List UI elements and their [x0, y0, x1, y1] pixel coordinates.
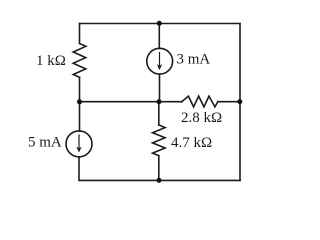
svg-text:1 kΩ: 1 kΩ: [36, 53, 66, 69]
wire center top (top node to 3 mA source): [158, 24, 160, 49]
wire left middle (R1 to 5 mA source): [79, 77, 81, 131]
node dot left middle: [77, 99, 82, 104]
node dot right middle: [237, 99, 242, 104]
node dot center middle: [157, 99, 162, 104]
resistor R3 4.7 kOhm: [153, 125, 166, 156]
svg-text:4.7 kΩ: 4.7 kΩ: [171, 135, 212, 151]
node dot bottom center: [157, 178, 162, 183]
wire left top (top wire to resistor R1): [79, 24, 81, 44]
current source I2 3 mA: [147, 48, 173, 74]
resistor R1 1 kOhm: [73, 44, 86, 78]
wire center mid (middle wire to R3): [158, 102, 160, 125]
node dot top center: [157, 21, 162, 26]
resistor R2 2.8 kOhm (horizontal): [182, 96, 218, 107]
wire center bottom (R3 to bottom wire): [158, 156, 160, 181]
wire middle to right node: [218, 101, 240, 103]
svg-text:5 mA: 5 mA: [28, 135, 62, 151]
svg-text:3 mA: 3 mA: [177, 52, 211, 68]
current source I1 5 mA: [66, 131, 92, 157]
wire left bottom (source to bottom wire): [78, 157, 81, 181]
wire right side: [239, 24, 241, 181]
wire top: left node to right node: [80, 23, 241, 25]
svg-text:2.8 kΩ: 2.8 kΩ: [181, 110, 222, 126]
wire center (3 mA source to middle wire): [159, 74, 161, 102]
wire middle horizontal: left wire to resistor R2: [80, 101, 183, 103]
wire bottom: [80, 179, 241, 181]
